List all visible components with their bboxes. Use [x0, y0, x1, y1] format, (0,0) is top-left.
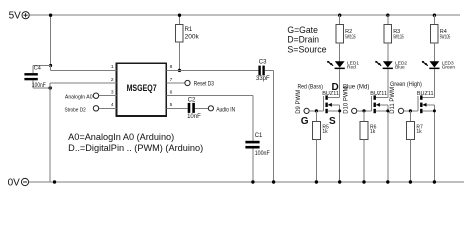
svg-text:D10 PWM: D10 PWM: [344, 86, 350, 113]
svg-text:C1: C1: [255, 133, 263, 139]
svg-text:S=Source: S=Source: [287, 45, 326, 56]
svg-text:D9 PWM: D9 PWM: [296, 90, 302, 114]
svg-text:Reset D3: Reset D3: [194, 81, 215, 87]
svg-text:Strobe D2: Strobe D2: [65, 108, 86, 114]
svg-text:5W1Ω5: 5W1Ω5: [345, 35, 356, 41]
svg-text:2: 2: [111, 77, 114, 83]
svg-text:R1: R1: [185, 27, 193, 33]
svg-text:100nF: 100nF: [32, 83, 46, 89]
svg-text:G: G: [301, 116, 309, 127]
svg-text:BUZ11: BUZ11: [417, 91, 434, 97]
svg-text:5W1Ω5: 5W1Ω5: [393, 35, 404, 41]
svg-text:1k: 1k: [370, 129, 376, 135]
svg-text:3: 3: [111, 90, 114, 96]
svg-text:D: D: [332, 82, 339, 93]
svg-text:5V: 5V: [9, 11, 22, 22]
svg-text:Green: Green: [442, 64, 456, 70]
svg-text:100nF: 100nF: [255, 151, 270, 157]
svg-text:33pF: 33pF: [256, 76, 270, 82]
svg-text:4: 4: [111, 102, 114, 108]
svg-text:C4: C4: [34, 66, 41, 72]
svg-text:Audio IN: Audio IN: [216, 107, 235, 113]
svg-text:S: S: [329, 116, 336, 127]
svg-text:8: 8: [170, 64, 173, 70]
svg-text:10nF: 10nF: [187, 114, 201, 120]
svg-text:6: 6: [170, 90, 173, 96]
svg-text:C3: C3: [259, 60, 267, 66]
svg-text:MSGEQ7: MSGEQ7: [127, 83, 157, 93]
svg-text:1k: 1k: [322, 129, 328, 135]
svg-text:0V: 0V: [8, 177, 21, 188]
svg-text:1k: 1k: [416, 129, 422, 135]
svg-text:7: 7: [170, 77, 173, 83]
svg-text:5W1Ω5: 5W1Ω5: [440, 35, 451, 41]
svg-text:1: 1: [111, 64, 114, 70]
svg-text:D..=DigitalPin .. (PWM) (Ardui: D..=DigitalPin .. (PWM) (Arduino): [68, 143, 203, 153]
svg-text:AnalogIn A0: AnalogIn A0: [65, 95, 93, 101]
svg-text:Red: Red: [347, 64, 356, 70]
svg-text:A0=AnalogIn A0 (Arduino): A0=AnalogIn A0 (Arduino): [68, 132, 174, 142]
svg-text:C2: C2: [188, 98, 196, 104]
svg-text:Red (Bass): Red (Bass): [298, 85, 324, 91]
svg-text:D11 PWM: D11 PWM: [390, 87, 396, 114]
svg-text:200k: 200k: [185, 33, 200, 40]
svg-text:5: 5: [170, 102, 173, 108]
svg-text:BUZ11: BUZ11: [370, 91, 387, 97]
svg-text:Blue: Blue: [395, 64, 405, 70]
